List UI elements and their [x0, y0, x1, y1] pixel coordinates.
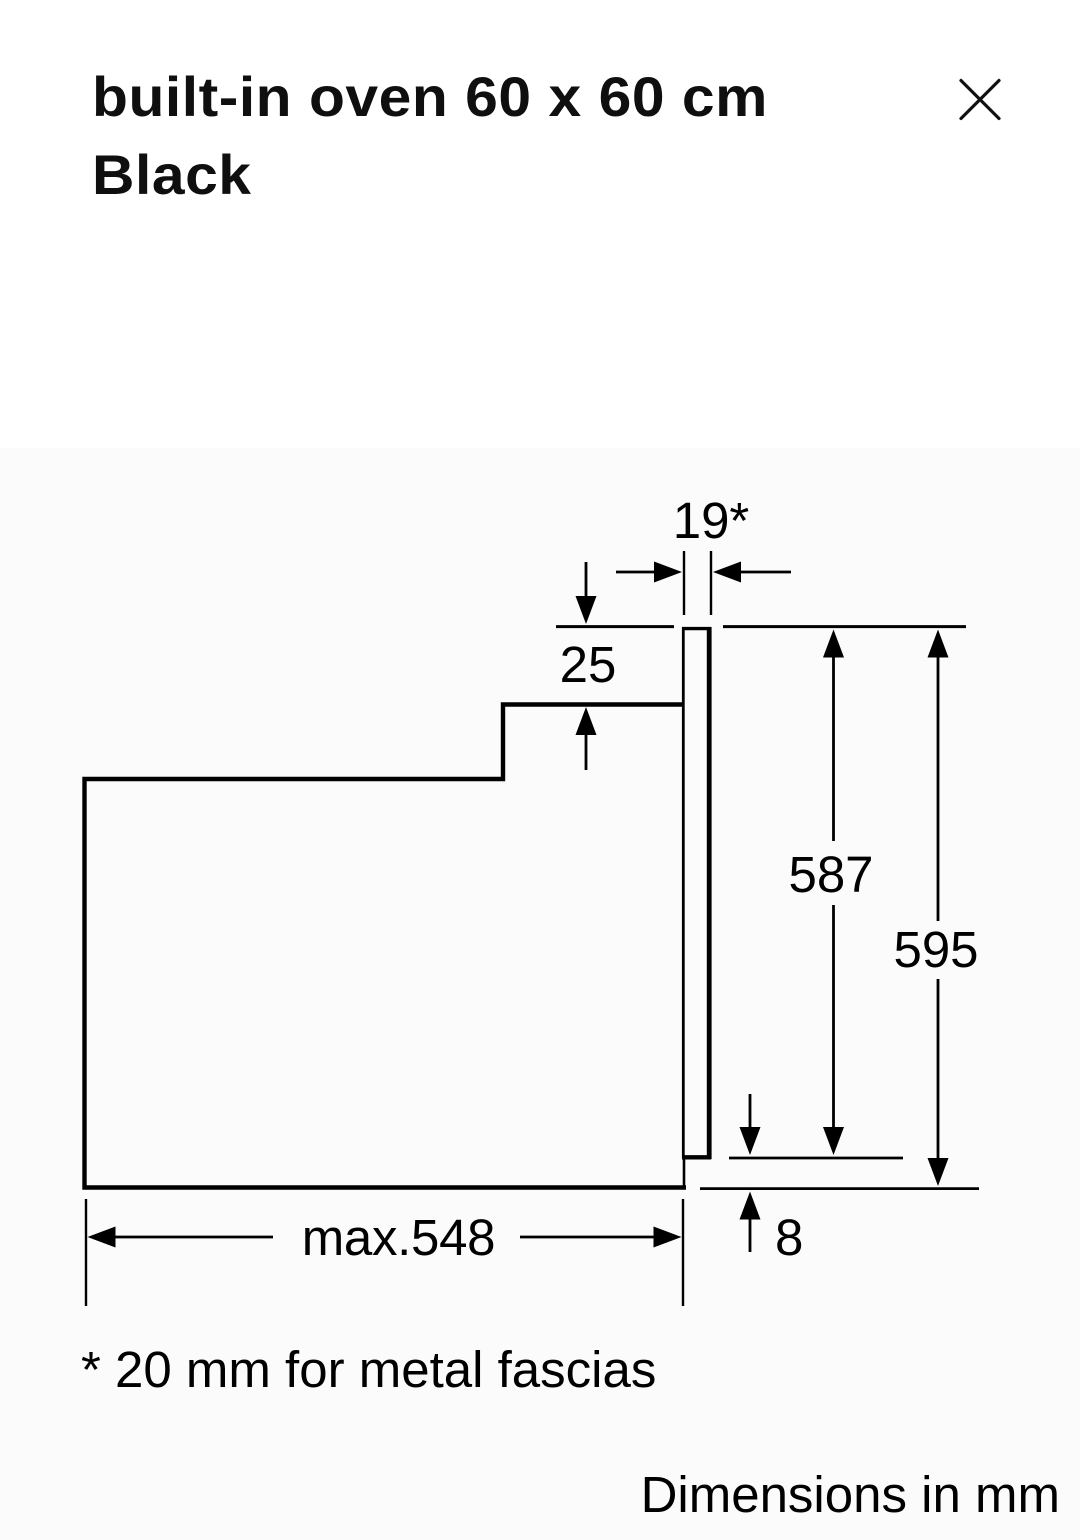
- dim 25: up arrow: [585, 734, 588, 770]
- dim 19*: left arrow: [616, 571, 655, 574]
- svg-text:max.548: max.548: [302, 1209, 496, 1266]
- oven bottom-front connector: [683, 1157, 686, 1188]
- dim 587 line with arrows: [832, 656, 835, 841]
- svg-text:587: 587: [788, 846, 873, 903]
- image background panel: [0, 448, 1080, 1540]
- svg-text:595: 595: [893, 921, 978, 978]
- oven body outline: [85, 705, 687, 1188]
- svg-text:19*: 19*: [673, 492, 750, 549]
- fascia bottom reference line: [729, 1157, 903, 1160]
- dim 19*: right arrow: [740, 571, 791, 574]
- dim 19*: extension lines: [683, 551, 685, 615]
- dim max.548: left arrow: [88, 1227, 116, 1248]
- svg-text:25: 25: [560, 636, 617, 693]
- dim 8: lower up arrow: [749, 1218, 752, 1252]
- dim 8: upper down arrow: [749, 1094, 752, 1129]
- dim 25: down arrow: [585, 562, 588, 598]
- dim max.548: extension lines: [85, 1199, 87, 1306]
- close button X: [961, 81, 999, 119]
- product title: [92, 58, 768, 213]
- dim 595 line with arrows: [937, 656, 940, 921]
- bottom reference line: [700, 1187, 979, 1190]
- fascia panel (front): [682, 627, 711, 1159]
- svg-text:Dimensions in mm: Dimensions in mm: [641, 1466, 1060, 1523]
- dim max.548: right arrow: [520, 1236, 655, 1239]
- svg-text:8: 8: [775, 1209, 803, 1266]
- svg-text:* 20 mm for metal fascias: * 20 mm for metal fascias: [81, 1341, 656, 1398]
- top reference line (niche top): [556, 625, 674, 628]
